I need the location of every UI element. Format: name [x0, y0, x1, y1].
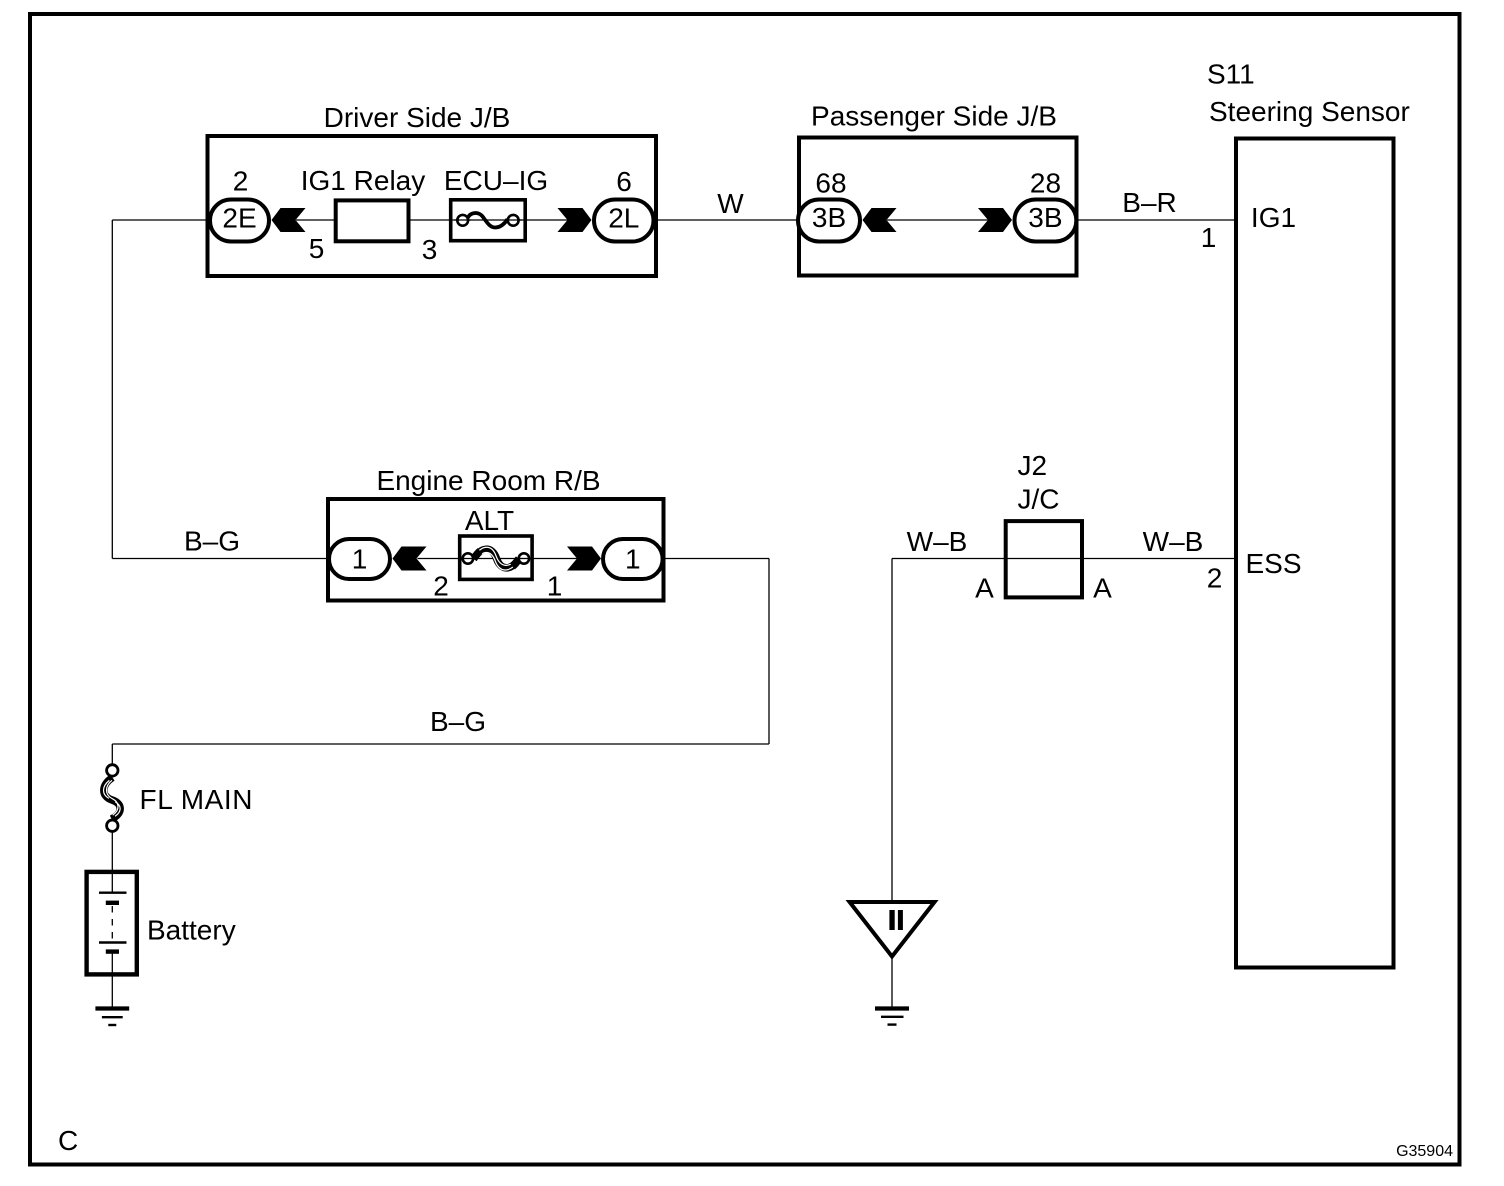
svg-text:B–R: B–R	[1122, 187, 1176, 218]
svg-text:C: C	[58, 1125, 78, 1156]
svg-text:IG1 Relay: IG1 Relay	[301, 165, 426, 196]
svg-text:Engine Room R/B: Engine Room R/B	[376, 465, 600, 496]
svg-text:3B: 3B	[1028, 202, 1062, 233]
svg-text:2: 2	[233, 166, 249, 197]
svg-text:1: 1	[625, 544, 641, 575]
svg-text:1: 1	[1201, 222, 1217, 253]
svg-text:A: A	[975, 573, 994, 604]
svg-text:Passenger Side J/B: Passenger Side J/B	[811, 101, 1057, 132]
svg-text:1: 1	[352, 544, 368, 575]
svg-text:A: A	[1093, 573, 1112, 604]
svg-text:2: 2	[433, 571, 449, 602]
svg-text:3: 3	[422, 234, 438, 265]
svg-text:B–G: B–G	[430, 706, 486, 737]
svg-text:W–B: W–B	[1143, 526, 1204, 557]
svg-text:2L: 2L	[608, 203, 639, 234]
svg-text:2: 2	[1207, 563, 1223, 594]
svg-text:Driver Side J/B: Driver Side J/B	[324, 102, 511, 133]
svg-text:FL MAIN: FL MAIN	[140, 784, 254, 815]
svg-text:3B: 3B	[812, 202, 846, 233]
svg-text:2E: 2E	[222, 203, 256, 234]
svg-text:J/C: J/C	[1018, 484, 1060, 515]
svg-text:5: 5	[309, 233, 325, 264]
svg-text:28: 28	[1030, 168, 1061, 199]
svg-text:IG1: IG1	[1251, 202, 1296, 233]
svg-text:ALT: ALT	[465, 505, 514, 536]
svg-text:W: W	[717, 188, 744, 219]
svg-text:B–G: B–G	[184, 526, 240, 557]
svg-text:1: 1	[547, 571, 563, 602]
svg-text:J2: J2	[1018, 450, 1048, 481]
svg-text:S11: S11	[1207, 59, 1255, 90]
svg-text:Battery: Battery	[147, 915, 236, 946]
svg-text:ECU–IG: ECU–IG	[444, 165, 548, 196]
svg-text:W–B: W–B	[907, 526, 968, 557]
svg-text:G35904: G35904	[1396, 1143, 1453, 1160]
svg-text:ESS: ESS	[1245, 548, 1301, 579]
svg-text:6: 6	[616, 166, 632, 197]
svg-text:Steering Sensor: Steering Sensor	[1209, 96, 1410, 127]
svg-text:68: 68	[815, 168, 846, 199]
